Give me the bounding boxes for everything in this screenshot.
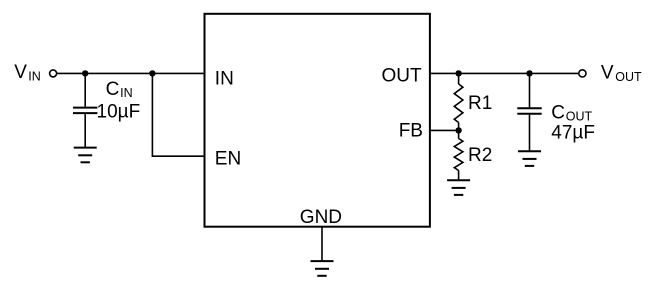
- wire GND pin: [321, 227, 323, 261]
- svg-text:C: C: [551, 102, 565, 123]
- wire VIN to IN pin: [57, 72, 204, 74]
- pin GND: [300, 207, 342, 228]
- label CIN value: [97, 79, 141, 122]
- label VIN: [14, 62, 41, 83]
- terminal VIN: [50, 70, 57, 77]
- node junction R1: [455, 70, 461, 76]
- wire R2 top: [458, 130, 460, 138]
- capacitor COUT: [517, 108, 541, 114]
- wire COUT bottom: [529, 115, 531, 151]
- wire R1 top: [458, 73, 460, 84]
- wire EN branch: [152, 73, 204, 156]
- svg-text:47µF: 47µF: [551, 123, 595, 144]
- ground R2: [447, 180, 470, 195]
- wire R2 bottom: [458, 171, 460, 180]
- svg-text:OUT: OUT: [382, 65, 423, 86]
- op-amp U1 regulator box: [205, 14, 430, 227]
- svg-text:R1: R1: [468, 93, 492, 114]
- svg-text:V: V: [14, 62, 27, 83]
- wire CIN top: [84, 73, 86, 106]
- pin IN: [215, 68, 234, 89]
- svg-text:IN: IN: [215, 68, 234, 89]
- svg-text:GND: GND: [300, 207, 342, 228]
- node junction CIN: [82, 70, 88, 76]
- ground GND: [311, 261, 334, 276]
- svg-text:10µF: 10µF: [97, 101, 141, 122]
- svg-text:OUT: OUT: [615, 70, 642, 84]
- label R2: [468, 145, 492, 166]
- label COUT value: [551, 102, 595, 143]
- node junction COUT: [526, 70, 532, 76]
- pin OUT: [382, 65, 423, 86]
- svg-text:IN: IN: [120, 86, 133, 100]
- label VOUT: [601, 63, 642, 84]
- ground COUT: [518, 151, 541, 166]
- label R1: [468, 93, 492, 114]
- svg-text:C: C: [106, 79, 120, 100]
- ground CIN: [74, 148, 97, 163]
- svg-text:EN: EN: [215, 149, 241, 170]
- wire COUT top: [529, 73, 531, 107]
- wire CIN bottom: [84, 114, 86, 147]
- svg-text:R2: R2: [468, 145, 492, 166]
- wire R1 bottom: [458, 123, 460, 131]
- node junction FB: [455, 127, 461, 133]
- pin FB: [399, 120, 423, 141]
- resistor R1: [454, 84, 463, 123]
- svg-text:V: V: [601, 63, 614, 84]
- resistor R2: [454, 139, 463, 171]
- wire FB: [430, 129, 459, 131]
- pin EN: [215, 149, 241, 170]
- terminal VOUT: [579, 70, 586, 77]
- svg-text:OUT: OUT: [566, 110, 593, 124]
- wire OUT to VOUT: [430, 72, 579, 74]
- svg-text:IN: IN: [28, 70, 41, 84]
- capacitor CIN: [73, 108, 97, 114]
- node junction EN: [149, 70, 155, 76]
- svg-text:FB: FB: [399, 120, 423, 141]
